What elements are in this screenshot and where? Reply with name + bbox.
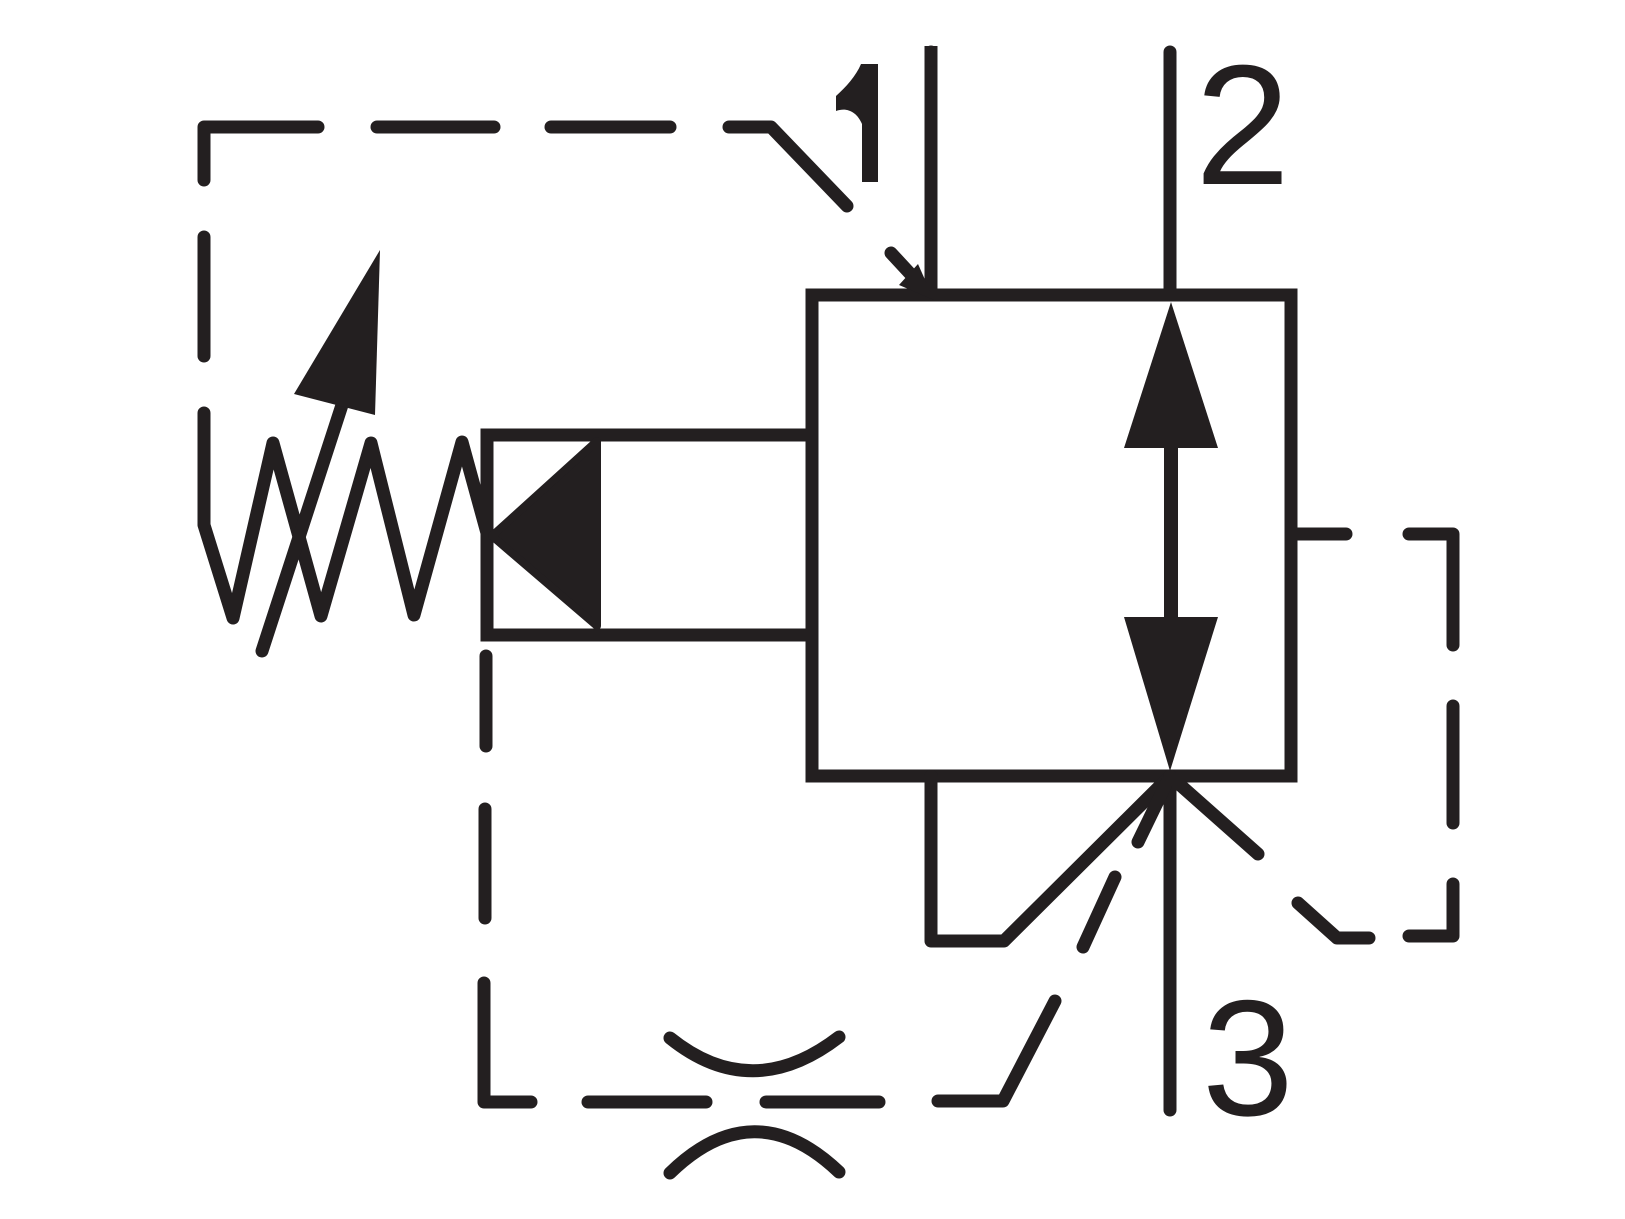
svg-text:3: 3 [1202, 966, 1294, 1150]
svg-text:2: 2 [1195, 30, 1290, 221]
